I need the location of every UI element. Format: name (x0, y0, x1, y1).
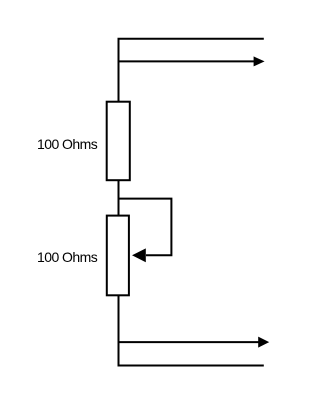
wire: R2 bottom to bottom rail (119, 295, 264, 365)
value label: 100 Ohms (R2) (37, 249, 98, 265)
wire: top rail from node A to right edge (119, 39, 264, 102)
resistor R2 (potentiometer wired as rheostat, 100 Ohms) (107, 216, 129, 296)
wire: bottom output lead with arrowhead (119, 337, 270, 348)
value label: 100 Ohms (R1) (37, 136, 98, 152)
svg-text:100 Ohms: 100 Ohms (37, 136, 98, 152)
resistor R1 (100 Ohms) (107, 102, 130, 181)
wire: wiper feedback loop from node B to wiper arrow (119, 199, 172, 263)
wire: top output lead with arrowhead (119, 56, 265, 66)
svg-text:100 Ohms: 100 Ohms (37, 249, 98, 265)
wire: R1 bottom to R2 top (node B junction) (118, 180, 120, 215)
